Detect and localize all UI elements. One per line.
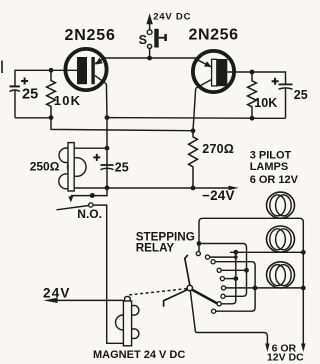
- relay N.O. contact: armature wire: [71, 188, 107, 196]
- wire: c1 group bus (to c4, c7): [199, 244, 247, 297]
- wiper pawl arm (down-left): [164, 289, 188, 306]
- transistor Q1 2N256 (left): [65, 49, 106, 90]
- svg-text:LAMPS: LAMPS: [250, 161, 289, 173]
- svg-text:MAGNET 24 V DC: MAGNET 24 V DC: [93, 349, 185, 361]
- svg-text:3 PILOT: 3 PILOT: [250, 149, 292, 161]
- wiper hub: [187, 285, 192, 290]
- paper edge tick: [1, 61, 3, 74]
- resistor R1 10K: [47, 70, 56, 117]
- stepping relay contact c5: [220, 277, 224, 281]
- resistor R3 270 ohm: [189, 131, 198, 188]
- junction: coil/cap top: [105, 146, 110, 151]
- junction: left base node: [49, 68, 54, 73]
- junction: R2 bottom: [250, 116, 255, 121]
- svg-text:6 OR 12V: 6 OR 12V: [250, 174, 299, 186]
- wire: 24V feed: [55, 299, 123, 301]
- arrowhead: -24V: [229, 186, 239, 190]
- junction: lamp3/right bus: [301, 286, 306, 291]
- wire: c2 stub: [210, 256, 236, 258]
- junction: R1 bottom: [49, 115, 54, 120]
- moving contact: [90, 193, 95, 198]
- junction: R3 bottom: [191, 186, 196, 191]
- junction: Q2 collector node: [191, 128, 196, 133]
- junction: lamp2/bus B: [233, 250, 238, 255]
- svg-text:24V DC: 24V DC: [153, 12, 191, 23]
- wire: coil top lead: [74, 147, 107, 149]
- svg-text:25: 25: [294, 88, 308, 102]
- svg-text:RELAY: RELAY: [136, 241, 175, 254]
- wiper return wire: [190, 291, 267, 344]
- svg-text:25: 25: [115, 160, 129, 174]
- capacitor C1 25uF: [10, 86, 20, 117]
- junction: lamp3/c3-c9 bus: [253, 286, 258, 291]
- arrowhead: wiper return down: [265, 344, 269, 353]
- switch S lower contact: [148, 44, 152, 48]
- stepping relay contact c4: [217, 268, 221, 272]
- label + (C1): [21, 78, 28, 85]
- svg-text:12V DC: 12V DC: [267, 352, 304, 364]
- wiper blade: [192, 290, 217, 304]
- svg-text:2N256: 2N256: [65, 27, 116, 44]
- stepping relay contact c1: [196, 252, 200, 256]
- wire: lamp3 line from contact c6: [226, 287, 303, 289]
- junction: right base node: [250, 70, 255, 75]
- junction: c2 stub: [234, 255, 238, 259]
- wire: switch to rail: [149, 49, 151, 59]
- switch S upper contact: [147, 30, 152, 35]
- pushbutton actuator of switch S: [154, 29, 167, 48]
- junction: c4 stub: [244, 268, 249, 273]
- wire: C1 bottom to R1 bottom: [15, 117, 51, 119]
- svg-text:−24V: −24V: [202, 188, 235, 203]
- wire: Q2 collector down: [193, 88, 196, 130]
- svg-text:N.O.: N.O.: [77, 207, 102, 221]
- stepping relay contact c9: [212, 309, 216, 313]
- svg-text:10K: 10K: [54, 93, 81, 108]
- label + (C3): [93, 154, 100, 161]
- junction: lamp1 drop: [197, 241, 202, 246]
- wire: base node to C2 top: [252, 72, 286, 84]
- svg-text:25: 25: [22, 86, 38, 102]
- mechanical link (dashed): [129, 289, 187, 295]
- arrowhead: lamp bus down: [301, 344, 305, 353]
- junction: coil/cap bottom: [105, 185, 110, 190]
- wire: coil bottom lead / -24V rail: [74, 187, 230, 189]
- wire: fixed contact to magnet feed: [93, 205, 123, 343]
- 24VDC supply arrow: [146, 13, 152, 29]
- lamp I2: [267, 226, 295, 252]
- wire: lamp2 line: [230, 251, 303, 253]
- wire: R2 bottom to C2 bottom: [252, 117, 286, 119]
- wire: right node to Q1 collector (cross-coupling): [107, 117, 252, 120]
- junction: c5 stub: [233, 276, 238, 281]
- wire: Q1 base to left node: [15, 70, 77, 86]
- junction: Q1 collector node: [105, 115, 110, 120]
- wire: Q2 base to right node: [228, 71, 253, 73]
- stepping relay contact c2: [205, 255, 209, 259]
- wire: c4 stub: [222, 269, 247, 271]
- wire: lamp1 line + drop to contact c1 + right bus: [199, 218, 303, 343]
- stepping relay contact c6: [221, 286, 225, 290]
- fixed contact (N.O.): [89, 203, 93, 207]
- wire: left node to Q2 collector (cross-coupling): [51, 118, 193, 131]
- junction: lamp2/right bus: [301, 250, 306, 255]
- stepping magnet coil: [116, 296, 139, 345]
- stepping relay contact c7: [221, 294, 225, 298]
- label + (C2): [272, 78, 279, 85]
- lamp I1: [267, 192, 295, 218]
- svg-text:S: S: [139, 33, 147, 47]
- arrowhead: 24V left: [43, 298, 57, 303]
- junction: rail/switch: [147, 56, 152, 61]
- wire: c5 stub: [225, 278, 236, 280]
- wire: Q1 collector down: [105, 84, 108, 188]
- wire: emitter top rail: [103, 57, 197, 59]
- transistor Q2 2N256 (right): [193, 51, 234, 92]
- resistor R2 10K: [248, 72, 257, 118]
- svg-text:270Ω: 270Ω: [202, 142, 234, 156]
- capacitor C3 25uF: [101, 165, 114, 170]
- svg-text:2N256: 2N256: [189, 27, 239, 44]
- stepping relay contact c3: [211, 260, 215, 264]
- armature motion arrow: [68, 196, 73, 202]
- lamp I3: [267, 262, 295, 288]
- blade line: [57, 206, 89, 210]
- stepping relay contact c8: [217, 302, 221, 306]
- svg-text:10K: 10K: [254, 96, 277, 110]
- relay coil 250 ohm: [59, 143, 86, 191]
- wiper ratchet arm (up): [185, 255, 190, 286]
- capacitor C2 25uF: [279, 84, 293, 118]
- wire: c2 group bus (to c5, c8): [222, 252, 236, 303]
- wire: c3 group bus (to c9): [215, 262, 255, 312]
- svg-text:250Ω: 250Ω: [30, 159, 60, 173]
